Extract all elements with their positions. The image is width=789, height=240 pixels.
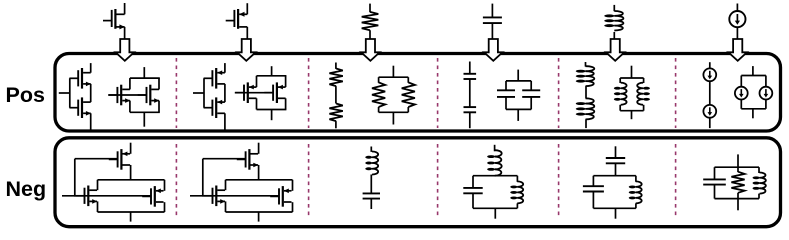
- wire bottom rail tank2: [593, 207, 636, 209]
- wire I1-I2 junction: [709, 81, 711, 105]
- wire source stub M6: [224, 113, 226, 130]
- wire gate bus parallel NMOS: [108, 94, 147, 96]
- wire bottom rail parallel I: [741, 108, 766, 110]
- wire left riser parallel C: [505, 81, 507, 90]
- inductor L9 (tank3 right): [753, 172, 766, 193]
- capacitor C3 (parallel left): [497, 90, 515, 97]
- hollow arrow into Pos box 4: [484, 39, 503, 61]
- wire left drop (neg cell 2): [225, 201, 227, 212]
- capacitor C8 (tank2 left): [583, 186, 604, 191]
- wire source stub M2: [90, 113, 92, 130]
- wire right riser parallel L: [643, 78, 645, 83]
- wire gate feedback riser (neg cell 1): [74, 159, 76, 197]
- current source device symbol: [729, 4, 745, 39]
- wire top rail tank2: [593, 175, 636, 177]
- wire right drop tank1: [516, 203, 518, 208]
- wire bottom stub parallel L: [631, 111, 633, 120]
- wire left drop tank2: [592, 192, 594, 209]
- wire right riser parallel C: [530, 81, 532, 90]
- wire right riser (neg cell 2): [292, 180, 294, 191]
- wire mid drop tank3: [737, 193, 739, 199]
- dashed separator Pos 1: [175, 58, 177, 128]
- wire gate bus series NMOS: [69, 78, 71, 107]
- wire top lead series C: [469, 62, 471, 74]
- wire top stub parallel R: [392, 66, 394, 78]
- wire gate feedback riser (neg cell 2): [202, 159, 204, 197]
- wire bottom stub tank3: [737, 199, 739, 211]
- capacitor C5 (series LC): [363, 193, 380, 198]
- capacitor C6 (tank1 left): [463, 188, 482, 193]
- inductor L4 (parallel right): [637, 83, 650, 105]
- wire bottom lead series R: [335, 121, 337, 128]
- wire input lead series PMOS: [193, 92, 204, 94]
- wire C1-C2 junction: [469, 79, 471, 107]
- wire left riser tank2: [592, 176, 594, 187]
- wire bottom rail parallel PMOS: [257, 109, 287, 111]
- wire top rail (neg cell 2): [226, 179, 293, 181]
- wire input lead series NMOS: [59, 92, 70, 94]
- wire mid drop (neg cell 1): [130, 165, 132, 180]
- wire top stub parallel L: [631, 66, 633, 78]
- transistor M5 (series PMOS top): [204, 68, 225, 89]
- wire bottom rail tank3: [715, 198, 760, 200]
- resistor R2 (series bottom): [329, 104, 342, 122]
- wire top rail parallel PMOS: [257, 75, 287, 77]
- transistor M4 (parallel NMOS right): [138, 85, 160, 106]
- wire right riser parallel R: [407, 77, 409, 83]
- wire bottom stub parallel I: [752, 109, 754, 119]
- wire left drop parallel C: [505, 97, 507, 110]
- wire right drop (neg cell 1): [164, 202, 166, 212]
- dashed separator Neg 3: [437, 144, 439, 219]
- dashed separator Neg 5: [675, 144, 677, 219]
- dashed separator Pos 2: [308, 58, 310, 128]
- hollow arrow into Pos box 1: [116, 39, 135, 61]
- transistor top PMOS (neg cell 1): [109, 149, 130, 170]
- wire bottom stub tank1: [494, 208, 496, 218]
- hollow arrow into Pos box 3: [361, 39, 380, 61]
- wire bottom rail parallel R: [379, 111, 409, 113]
- wire right drop parallel R: [407, 107, 409, 112]
- wire bottom stub tank2: [615, 208, 617, 218]
- wire bottom rail (neg cell 1): [98, 211, 165, 213]
- wire bottom stub (neg cell 1): [130, 212, 132, 222]
- wire gate bus parallel PMOS: [235, 92, 274, 94]
- wire drain riser M8: [285, 76, 287, 87]
- wire left riser parallel R: [378, 77, 380, 83]
- dashed separator Pos 4: [558, 58, 560, 128]
- wire top rail parallel I: [741, 75, 766, 77]
- wire top stub tank3: [737, 154, 739, 167]
- wire drain riser M3: [129, 78, 131, 89]
- dashed separator Neg 4: [558, 144, 560, 219]
- resistor R3 (parallel left): [372, 82, 385, 107]
- wire left riser tank3: [714, 167, 716, 179]
- wire bottom stub parallel R: [392, 112, 394, 124]
- transistor M1 (series NMOS top): [69, 68, 91, 89]
- current source I4 (parallel right): [760, 87, 773, 100]
- wire left riser parallel I: [740, 76, 742, 87]
- wire bottom rail tank1: [473, 207, 517, 209]
- wire right drop parallel L: [643, 105, 645, 111]
- wire left riser parallel L: [619, 78, 621, 83]
- wire right drop parallel C: [530, 97, 532, 110]
- hollow arrow into Pos box 6: [728, 39, 747, 61]
- dashed separator Neg 2: [308, 144, 310, 219]
- capacitor C9 (tank3 left): [703, 179, 726, 184]
- wire bottom rail parallel L: [620, 110, 643, 112]
- wire LC junction: [370, 175, 372, 194]
- wire right riser parallel I: [765, 76, 767, 87]
- wire left drop parallel I: [740, 100, 742, 109]
- wire bottom lead series LC: [370, 199, 372, 209]
- transistor pair right PMOS (neg cell 2): [270, 186, 291, 207]
- wire L1-L2 junction: [585, 86, 587, 98]
- wire right drop tank2: [635, 203, 637, 208]
- transistor M6 (series PMOS bottom): [204, 97, 225, 118]
- inductor L6 (tank1 top): [487, 150, 502, 176]
- wire left riser (neg cell 1): [97, 180, 99, 190]
- Neg box: [55, 138, 781, 227]
- wire right drop (neg cell 2): [292, 202, 294, 212]
- current source I1 (series top): [703, 68, 716, 81]
- wire top stub parallel PMOS: [271, 66, 273, 76]
- inductor L8 (tank2 right): [629, 181, 642, 203]
- wire bottom lead series L: [585, 119, 587, 128]
- wire drain stub M1: [90, 63, 92, 73]
- current source I2 (series bottom): [703, 105, 716, 118]
- hollow arrow into Pos box 2: [237, 39, 256, 61]
- wire top lead series LC: [370, 147, 372, 152]
- wire top rail (neg cell 1): [98, 179, 165, 181]
- inductor L3 (parallel left): [614, 83, 627, 105]
- capacitor C2 (series bottom): [464, 107, 477, 112]
- wire top rail parallel C: [506, 80, 531, 82]
- Neg label: [6, 177, 47, 201]
- wire top rail parallel R: [379, 76, 409, 78]
- inductor L1 (series top): [576, 66, 595, 86]
- wire M5-M6 junction: [224, 84, 226, 102]
- wire bottom rail (neg cell 2): [226, 211, 293, 213]
- capacitor device symbol: [483, 4, 502, 39]
- wire top gate lead (neg cell 1): [75, 158, 118, 160]
- wire right drop tank3: [758, 194, 760, 199]
- wire top rail tank3: [715, 166, 760, 168]
- wire top rail tank1: [473, 175, 517, 177]
- wire left drop parallel R: [378, 107, 380, 112]
- wire bottom stub parallel C: [517, 109, 519, 121]
- dashed separator Pos 5: [675, 58, 677, 128]
- wire left drop parallel L: [619, 105, 621, 111]
- wire source drop M7: [256, 98, 258, 109]
- dashed separator Pos 3: [437, 58, 439, 128]
- wire bottom lead series I: [709, 118, 711, 128]
- svg-text:Neg: Neg: [6, 177, 47, 201]
- current source I3 (parallel left): [735, 87, 748, 100]
- resistor R4 (parallel right): [402, 82, 415, 107]
- capacitor C4 (parallel right): [522, 90, 540, 97]
- wire drain riser M7: [256, 76, 258, 87]
- wire bottom rail parallel C: [506, 108, 531, 110]
- resistor device symbol: [362, 4, 379, 39]
- wire right riser tank2: [635, 176, 637, 182]
- wire bottom stub parallel PMOS: [271, 110, 273, 121]
- wire top stub parallel NMOS: [143, 67, 145, 78]
- wire mid drop (neg cell 2): [258, 165, 260, 180]
- transistor pair left NMOS (neg cell 2): [204, 186, 226, 207]
- PMOS device symbol: [226, 3, 248, 39]
- wire bottom rail parallel NMOS: [130, 111, 160, 113]
- wire bottom stub parallel NMOS: [143, 112, 145, 126]
- wire top lead series I: [709, 62, 711, 68]
- inductor device symbol: [604, 5, 623, 39]
- wire top drop tank2: [615, 163, 617, 175]
- resistor R5 (tank3 middle): [731, 172, 744, 193]
- Pos label: [6, 83, 45, 107]
- NMOS device symbol: [103, 3, 125, 39]
- wire bottom lead series C: [469, 112, 471, 128]
- resistor R1 (series top): [329, 69, 342, 87]
- svg-text:Pos: Pos: [6, 83, 45, 107]
- wire top stub (neg cell 1): [130, 143, 132, 154]
- wire top lead tank1: [494, 145, 496, 152]
- Pos box: [55, 54, 781, 132]
- wire right riser (neg cell 1): [164, 180, 166, 191]
- wire left riser (neg cell 2): [225, 180, 227, 190]
- wire top stub parallel I: [752, 66, 754, 75]
- transistor M3 (parallel NMOS left): [109, 85, 131, 106]
- wire top rail parallel NMOS: [130, 77, 160, 79]
- wire left drop (neg cell 1): [97, 201, 99, 212]
- wire top rail parallel L: [620, 77, 643, 79]
- capacitor C1 (series top): [464, 74, 477, 79]
- wire left riser tank1: [472, 176, 474, 188]
- inductor L5 (series LC): [365, 151, 378, 174]
- transistor pair right PMOS (neg cell 1): [142, 186, 163, 207]
- wire top stub (neg cell 2): [258, 143, 260, 154]
- wire left drop tank1: [472, 193, 474, 208]
- wire input line (neg cell 2): [190, 195, 279, 197]
- wire top stub parallel C: [517, 70, 519, 81]
- wire gate bus series PMOS: [203, 78, 205, 107]
- wire left drop tank3: [714, 185, 716, 199]
- hollow arrow into Pos box 5: [606, 39, 625, 61]
- wire drain riser M4: [158, 78, 160, 89]
- transistor pair left NMOS (neg cell 1): [76, 186, 98, 207]
- wire R1-R2 junction: [335, 86, 337, 103]
- wire M1-M2 junction: [90, 84, 92, 102]
- wire top gate lead (neg cell 2): [203, 158, 246, 160]
- capacitor C7 (tank2 top): [606, 158, 625, 163]
- wire source drop M8: [285, 98, 287, 109]
- wire bottom stub (neg cell 2): [258, 212, 260, 222]
- transistor M2 (series NMOS bottom): [69, 97, 91, 118]
- transistor top NMOS (neg cell 2): [237, 149, 258, 170]
- wire source drop M4: [158, 101, 160, 113]
- wire right riser tank1: [516, 176, 518, 182]
- wire input line (neg cell 1): [62, 195, 151, 197]
- wire top lead tank2: [615, 146, 617, 158]
- dashed separator Neg 1: [175, 144, 177, 219]
- wire top lead series L: [585, 62, 587, 67]
- inductor L2 (series bottom): [576, 98, 595, 119]
- wire top lead series R: [335, 63, 337, 69]
- wire mid riser tank3: [737, 167, 739, 172]
- wire right riser tank3: [758, 167, 760, 173]
- wire right drop parallel I: [765, 100, 767, 109]
- transistor M7 (parallel PMOS left): [235, 82, 256, 103]
- inductor L7 (tank1 right): [510, 181, 523, 203]
- transistor M8 (parallel PMOS right): [264, 82, 285, 103]
- wire source drop M3: [129, 101, 131, 113]
- wire drain stub M5: [224, 63, 226, 73]
